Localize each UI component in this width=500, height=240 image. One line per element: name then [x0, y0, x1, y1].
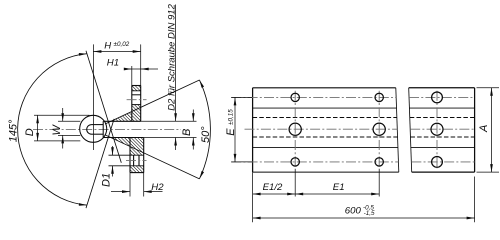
svg-text:E1/2: E1/2 — [263, 182, 283, 193]
svg-text:W: W — [51, 124, 63, 136]
svg-text:H2: H2 — [151, 182, 164, 193]
svg-text:600: 600 — [345, 206, 362, 217]
svg-text:A: A — [478, 125, 490, 133]
svg-text:-1,5: -1,5 — [364, 210, 375, 217]
svg-text:D: D — [24, 128, 36, 136]
svg-text:E: E — [225, 128, 237, 136]
svg-text:B: B — [181, 129, 193, 136]
svg-text:±0,15: ±0,15 — [228, 109, 235, 125]
svg-text:H1: H1 — [107, 57, 119, 68]
svg-text:145°: 145° — [8, 119, 20, 142]
svg-text:E1: E1 — [333, 182, 345, 193]
svg-text:H: H — [104, 40, 111, 51]
svg-text:D1: D1 — [101, 173, 113, 187]
svg-text:D2 für Schraube DIN 912: D2 für Schraube DIN 912 — [167, 3, 178, 110]
svg-text:50°: 50° — [200, 126, 212, 143]
svg-text:±0,02: ±0,02 — [114, 41, 130, 48]
